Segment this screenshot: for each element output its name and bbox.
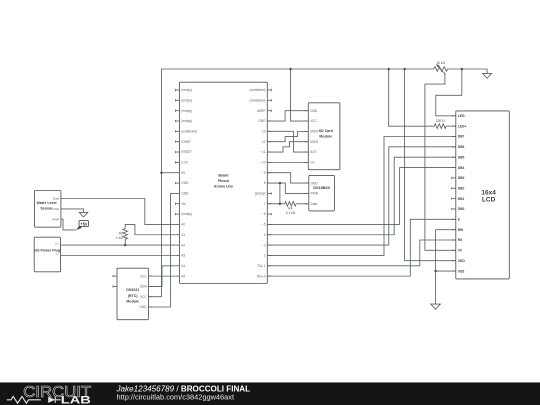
- svg-text:PWR: PWR: [52, 217, 60, 221]
- svg-text:A5: A5: [181, 274, 185, 278]
- svg-text:A1: A1: [181, 233, 185, 237]
- svg-text:(unlabeled): (unlabeled): [250, 98, 266, 102]
- svg-text:DB2: DB2: [458, 186, 465, 190]
- svg-text:220 Ω: 220 Ω: [436, 119, 445, 123]
- svg-text:Board: Board: [218, 174, 228, 178]
- wire +5V drop to SD card VCC: [291, 69, 309, 121]
- svg-text:A4: A4: [181, 264, 185, 268]
- svg-text:(empty): (empty): [181, 109, 192, 113]
- svg-text:~ 10: ~ 10: [259, 161, 266, 165]
- Arduino pin labels right: [250, 88, 267, 278]
- footer bar: [0, 382, 540, 405]
- DS18B20 labels: [311, 181, 330, 206]
- svg-text:7: 7: [264, 202, 266, 206]
- resistor R2 1k: [123, 229, 128, 240]
- wire Arduino pin 12 to SD card MISO: [267, 131, 308, 141]
- resistor 220 ohm (LED backlight): [434, 124, 446, 129]
- svg-text:IOREF: IOREF: [181, 140, 191, 144]
- svg-text:GND: GND: [258, 119, 266, 123]
- svg-text:RX◂ 0: RX◂ 0: [257, 274, 266, 278]
- svg-text:VCC: VCC: [140, 295, 147, 299]
- wire Arduino pin 8 to DS18B20 PWR: [267, 183, 309, 193]
- svg-text:DB4: DB4: [458, 166, 465, 170]
- wire water sensor PWR to +5v flag: [61, 219, 77, 230]
- wire resistor R4 to DS18B20 Data: [296, 203, 309, 205]
- node +5v net flag: [76, 220, 88, 230]
- svg-text:RW: RW: [458, 228, 464, 232]
- svg-text:13: 13: [262, 130, 266, 134]
- svg-text:~ 9: ~ 9: [261, 171, 266, 175]
- svg-text:Module: Module: [126, 299, 139, 303]
- svg-text:MOSI: MOSI: [310, 140, 318, 144]
- value label R4 5.1k: [286, 206, 296, 214]
- svg-text:DB1: DB1: [458, 197, 465, 201]
- value label R2 1k: [116, 231, 123, 239]
- svg-text:4: 4: [264, 233, 266, 237]
- svg-text:http://circuitlab.com/c3842ggw: http://circuitlab.com/c3842ggw46axt: [117, 393, 235, 402]
- DS3231 RTC module U5: [113, 268, 153, 320]
- svg-text:VDD: VDD: [458, 259, 466, 263]
- svg-text:DB3: DB3: [458, 176, 465, 180]
- svg-text:US Power Plug: US Power Plug: [35, 249, 61, 253]
- svg-text:LCD: LCD: [482, 196, 496, 203]
- wire Arduino TX1 to LCD RS: [267, 240, 456, 266]
- wire water sensor GND to ground symbol: [61, 209, 84, 213]
- svg-text:~ 3: ~ 3: [261, 243, 266, 247]
- svg-text:MISO: MISO: [310, 130, 319, 134]
- svg-text:GND: GND: [181, 181, 189, 185]
- Arduino Uno board pinout U1: [175, 82, 271, 283]
- svg-text:V0: V0: [458, 249, 462, 253]
- svg-text:3.3V: 3.3V: [181, 161, 188, 165]
- svg-text:GND: GND: [311, 181, 319, 185]
- svg-text:~ 6: ~ 6: [261, 212, 266, 216]
- svg-text:2: 2: [264, 254, 266, 258]
- svg-text:DB0: DB0: [458, 207, 465, 211]
- wire Arduino pin 9 to DS18B20 GND: [267, 173, 309, 183]
- Arduino board label: [214, 174, 233, 189]
- svg-text:5.1 kΩ: 5.1 kΩ: [286, 211, 296, 215]
- wire Arduino A5 to RTC SCL: [148, 275, 175, 277]
- svg-text:Water Level: Water Level: [36, 201, 56, 205]
- RTC labels: [126, 274, 147, 309]
- svg-text:A2: A2: [181, 243, 185, 247]
- svg-text:AREF: AREF: [257, 109, 266, 113]
- wire Arduino pin 13 to SD card SCK: [267, 131, 308, 152]
- svg-text:GND: GND: [310, 109, 318, 113]
- svg-text:LAB: LAB: [61, 394, 91, 405]
- svg-text:12: 12: [262, 140, 266, 144]
- DS18B20 temperature sensor U3: [305, 175, 335, 211]
- wire resistor R2 bottom to A2 net: [124, 239, 126, 245]
- wire Arduino GND to SD card GND: [267, 111, 308, 121]
- wire LCD RW to ground below: [436, 230, 456, 304]
- 16x4 LCD display U4: [452, 111, 510, 279]
- ground at water sensor: [79, 212, 88, 217]
- svg-text:(empty): (empty): [181, 88, 192, 92]
- resistor R4 5.1k: [285, 202, 297, 207]
- wire 220 ohm resistor output to LCD LED+: [446, 125, 456, 127]
- svg-text:RESET: RESET: [181, 150, 192, 154]
- svg-text:LED+: LED+: [458, 124, 467, 128]
- svg-text:VSS: VSS: [458, 269, 465, 273]
- svg-text:Aruino Uno: Aruino Uno: [214, 184, 233, 188]
- svg-text:VCC: VCC: [310, 119, 317, 123]
- svg-text:(+): (+): [55, 242, 59, 246]
- wire Arduino A1 to resistor R2 top: [125, 224, 175, 234]
- wire Arduino pin 5 to LCD DB4: [267, 168, 456, 225]
- svg-text:(empty): (empty): [255, 192, 266, 196]
- svg-text:(empty): (empty): [181, 119, 192, 123]
- svg-text:SCL: SCL: [140, 274, 146, 278]
- svg-text:+5v: +5v: [80, 222, 88, 227]
- svg-text:(empty): (empty): [181, 212, 192, 216]
- svg-text:GND: GND: [181, 192, 189, 196]
- SD card module labels: [310, 109, 333, 165]
- SD card module U2: [304, 103, 340, 170]
- svg-text:~ 5: ~ 5: [261, 223, 266, 227]
- svg-text:(unlabeled): (unlabeled): [181, 130, 197, 134]
- svg-text:(RTC): (RTC): [128, 294, 139, 298]
- svg-text:SCK: SCK: [310, 150, 317, 154]
- svg-text:LED-: LED-: [458, 114, 466, 118]
- svg-text:RS: RS: [458, 238, 463, 242]
- wire Arduino RX0 to LCD E: [267, 219, 456, 276]
- wire +5V drop to LCD VDD: [405, 69, 456, 261]
- unconnected pin ticks: [113, 89, 452, 288]
- wire Arduino pin 4 to LCD DB5: [267, 157, 456, 235]
- svg-text:(unlabeled): (unlabeled): [250, 88, 266, 92]
- wire +5V from Arduino 5V pin to riser: [162, 172, 176, 174]
- wire +5V riser and top rail to potentiometer left terminal: [162, 69, 434, 173]
- wire Arduino A0 to water level sensor Data: [61, 199, 175, 225]
- svg-text:(empty): (empty): [181, 98, 192, 102]
- svg-text:1 kΩ: 1 kΩ: [116, 236, 123, 240]
- footer title text: [116, 385, 251, 402]
- wire Arduino pin 7 to resistor R4: [267, 203, 284, 205]
- svg-text:DB7: DB7: [458, 135, 465, 139]
- wire Arduino pin 11 to SD card MOSI: [267, 142, 308, 152]
- LCD labels: [458, 114, 497, 273]
- svg-text:~ 11: ~ 11: [259, 150, 265, 154]
- svg-text:R4: R4: [288, 206, 292, 210]
- wire Arduino pin 3 to LCD DB6: [267, 147, 456, 245]
- wire US power plug + to Arduino A2: [61, 244, 176, 246]
- svg-text:GND: GND: [140, 305, 148, 309]
- svg-text:Data: Data: [311, 202, 318, 206]
- svg-text:TX▸ 1: TX▸ 1: [257, 264, 266, 268]
- US power plug V1: [34, 237, 60, 272]
- wire LCD VSS to ground vertical: [436, 270, 456, 272]
- svg-text:16x4: 16x4: [481, 189, 496, 196]
- water level sensor labels: [36, 197, 60, 222]
- svg-text:DB6: DB6: [458, 145, 465, 149]
- svg-text:CS: CS: [310, 161, 314, 165]
- wire +5V down to RTC VCC: [148, 173, 161, 297]
- CircuitLab logo: [7, 384, 92, 405]
- svg-text:GND: GND: [53, 207, 61, 211]
- svg-text:Vin: Vin: [181, 202, 186, 206]
- wire potentiometer right terminal to top ground: [448, 69, 488, 74]
- svg-text:SDA: SDA: [140, 285, 147, 289]
- US power plug labels: [35, 242, 61, 256]
- ground top right: [483, 74, 492, 79]
- wire top ground junction down to LCD LED-: [436, 69, 462, 116]
- svg-text:PWR: PWR: [311, 192, 319, 196]
- svg-text:10 kΩ: 10 kΩ: [436, 61, 445, 65]
- wire Arduino pin 2 to LCD DB7: [267, 137, 456, 256]
- wire potentiometer wiper to LCD V0: [425, 73, 456, 250]
- wire Arduino pin 10 to SD card CS: [267, 161, 308, 163]
- svg-text:DS3231: DS3231: [126, 288, 139, 292]
- svg-text:A3: A3: [181, 254, 185, 258]
- wire +5V drop to 220 ohm resistor for LED+: [389, 69, 435, 126]
- svg-text:8: 8: [264, 181, 266, 185]
- Arduino pin labels left: [181, 88, 197, 278]
- svg-text:DS18B20: DS18B20: [313, 186, 329, 190]
- svg-text:Sensor: Sensor: [40, 206, 53, 210]
- wire Arduino GND2 to RTC GND: [148, 193, 175, 307]
- svg-text:SD Card: SD Card: [319, 129, 333, 133]
- potentiometer 10k (LCD contrast): [434, 64, 448, 75]
- svg-text:A0: A0: [181, 223, 185, 227]
- ground below LCD: [431, 304, 441, 309]
- svg-text:Module: Module: [319, 135, 332, 139]
- wire Arduino A4 to RTC SDA: [148, 266, 175, 287]
- wire US power plug - to Arduino A3: [61, 255, 176, 257]
- svg-text:Pinout: Pinout: [218, 179, 230, 183]
- svg-text:R2: R2: [119, 231, 123, 235]
- water level sensor U6: [34, 191, 62, 228]
- svg-text:DB5: DB5: [458, 155, 465, 159]
- wire pull-up link between pin8 and pin7 nets: [279, 183, 281, 204]
